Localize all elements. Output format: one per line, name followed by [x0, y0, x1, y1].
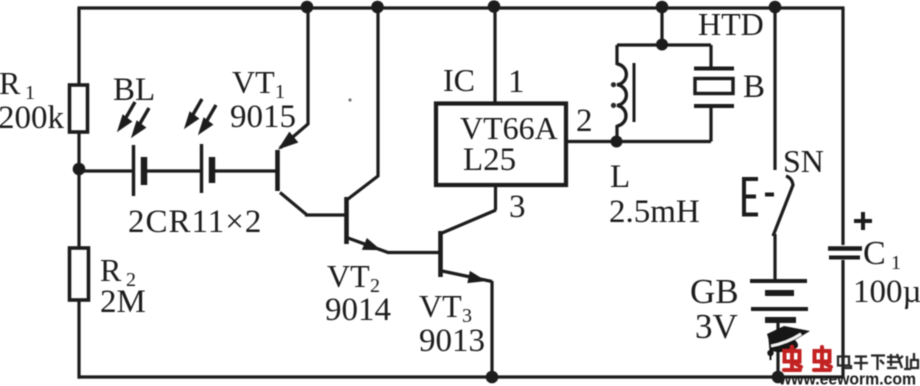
svg-text:2M: 2M [100, 284, 146, 320]
svg-text:9014: 9014 [325, 292, 391, 328]
battery GB plate short2 [765, 317, 796, 323]
watermark chongchong red characters [784, 347, 831, 370]
node dot left rail [73, 163, 86, 176]
transistor VT1 emitter diagonal [280, 124, 308, 148]
speck artifact [348, 98, 351, 101]
wire L bottom horizontal [617, 140, 711, 143]
node dot top rail SN branch [769, 1, 782, 14]
svg-text:L25: L25 [463, 142, 516, 178]
wire battery bottom lead [776, 319, 779, 377]
battery GB plate long2 [751, 307, 808, 311]
wire inductor top lead [615, 45, 618, 65]
svg-text:R: R [0, 65, 21, 101]
wire left rail mid [77, 132, 80, 249]
node dot L branch split [656, 39, 668, 51]
capacitor C1 top plate [828, 246, 862, 251]
BL light arrow 4 [205, 105, 216, 124]
capacitor C1 bottom plate [829, 256, 860, 260]
photocell BL cell1 long plate [132, 145, 135, 196]
wire branch top horizontal [617, 43, 711, 46]
wire VT2 collector vertical [376, 8, 379, 177]
wire right rail upper [841, 8, 844, 245]
svg-text:9013: 9013 [419, 323, 485, 359]
switch SN lever [773, 176, 793, 236]
watermark site name characters [838, 353, 918, 370]
BL light arrow 2 [138, 108, 149, 127]
watermark graduation cap [767, 326, 810, 360]
node dot top rail L branch [656, 1, 669, 14]
node dot top rail VT1 [301, 1, 314, 14]
node dot top rail VT2 [371, 1, 384, 14]
svg-text:200k: 200k [0, 100, 65, 136]
capacitor C1 plus sign [854, 212, 872, 230]
svg-text:B: B [743, 69, 765, 105]
wire bottom rail [78, 375, 845, 378]
transistor VT3 base bar [438, 231, 443, 277]
node dot top rail IC pin1 [488, 0, 501, 13]
svg-text:9015: 9015 [230, 99, 296, 135]
wire branch top vertical [660, 8, 663, 45]
svg-text:SN: SN [783, 143, 824, 179]
wire IC pin1 vertical [493, 8, 496, 103]
transistor VT3 emitter diagonal [442, 271, 492, 282]
wire buzzer top lead [709, 45, 712, 67]
wire left rail upper [77, 8, 80, 86]
wire VT3 emitter vertical [490, 281, 493, 377]
wire cell2 to VT1 base [212, 169, 276, 172]
transistor VT2 base bar [344, 197, 349, 244]
svg-text:VT: VT [419, 288, 462, 324]
photocell BL cell1 short plate [141, 157, 148, 185]
wire top rail [78, 6, 845, 9]
svg-text:2: 2 [576, 103, 593, 139]
battery GB plate long1 [750, 279, 807, 283]
wire VT1 collector to VT2 base [305, 213, 346, 216]
svg-text:www.eeworm.com: www.eeworm.com [778, 371, 916, 386]
svg-text:VT: VT [327, 258, 370, 294]
buzzer B top plate [694, 67, 734, 71]
node dot bottom rail VT3 [486, 371, 499, 384]
switch SN E bracket [744, 179, 758, 215]
svg-text:3: 3 [509, 189, 526, 225]
wire SN branch vertical [773, 8, 776, 170]
svg-text:2CR11×2: 2CR11×2 [128, 204, 262, 240]
transistor VT2 emitter arrow [364, 240, 379, 249]
svg-text:VT: VT [232, 64, 275, 100]
photocell BL cell2 short plate [209, 157, 216, 183]
svg-text:1: 1 [891, 252, 901, 274]
wire between cells [144, 169, 201, 172]
svg-text:100µ: 100µ [853, 274, 920, 310]
svg-text:IC: IC [443, 62, 475, 98]
node dot bottom rail battery [772, 371, 785, 384]
wire buzzer bottom lead [709, 106, 712, 142]
wire VT1 emitter vertical [306, 8, 309, 125]
resistor R2 [70, 248, 89, 300]
wire switch to battery [773, 234, 776, 282]
svg-text:L: L [610, 159, 630, 195]
svg-text:3V: 3V [695, 307, 738, 346]
svg-text:2.5mH: 2.5mH [609, 194, 700, 230]
transistor VT2 collector diagonal [348, 176, 378, 199]
switch SN dash [765, 193, 774, 197]
battery GB plate short1 [765, 290, 794, 296]
transistor VT1 collector diagonal [280, 193, 307, 216]
wire IC pin2 horizontal [566, 140, 617, 143]
svg-text:C: C [863, 235, 886, 272]
wire right rail lower [841, 260, 844, 377]
inductor L core line [633, 63, 636, 122]
BL light arrow 3 [191, 99, 202, 118]
inductor L coil [617, 64, 626, 126]
resistor R1 [70, 85, 88, 132]
svg-text:R: R [100, 252, 122, 288]
svg-text:BL: BL [113, 72, 155, 108]
wire IC pin3 vertical [494, 186, 497, 210]
buzzer B bottom plate [694, 104, 734, 108]
transistor VT3 collector diagonal [442, 210, 496, 233]
buzzer B element [695, 79, 733, 94]
wire left rail lower [77, 300, 80, 379]
transistor VT1 emitter arrow [281, 134, 297, 148]
svg-text:VT66A: VT66A [460, 110, 558, 146]
svg-text:1: 1 [508, 64, 525, 100]
BL light arrow 1 [120, 99, 216, 134]
wire VT2 emitter to VT3 base [387, 251, 440, 254]
wire inductor bottom lead [615, 125, 618, 142]
svg-text:GB: GB [690, 272, 739, 311]
transistor VT2 emitter diagonal [348, 238, 388, 253]
transistor VT1 base bar [275, 150, 280, 191]
node dot pin2 junction [611, 136, 623, 148]
svg-text:HTD: HTD [698, 6, 764, 42]
wire node A to photocell [79, 169, 134, 172]
transistor VT3 emitter arrow [469, 273, 483, 282]
IC box U1 [436, 104, 566, 186]
photocell BL cell2 long plate [200, 144, 203, 193]
